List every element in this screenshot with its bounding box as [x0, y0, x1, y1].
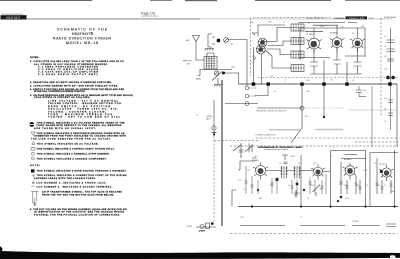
svg-text:L2: L2 — [283, 22, 285, 24]
svg-text:NOTES:: NOTES: — [30, 57, 39, 59]
svg-text:DET: DET — [313, 163, 316, 165]
dashed mid bus — [256, 137, 397, 139]
svg-text:SW1: SW1 — [254, 33, 258, 35]
svg-text:B+: B+ — [274, 91, 276, 93]
svg-text:8: 8 — [384, 185, 385, 187]
wire to oscillator — [225, 73, 239, 84]
capacitor C1 bracket — [208, 34, 212, 47]
svg-text:MODEL MR-18: MODEL MR-18 — [66, 41, 98, 45]
antenna ANT1 — [193, 36, 200, 42]
svg-text:AN IF TRANSFORMER SYMBOL. THE: AN IF TRANSFORMER SYMBOL. THE TOP SLUG I… — [42, 191, 122, 194]
loop antenna transformer L1 — [204, 53, 217, 69]
svg-text:.01: .01 — [384, 46, 386, 48]
svg-text:VOLUME CONTROL - MAXIM: VOLUME CONTROL - MAXIMUM SETTING POS. — [48, 102, 122, 105]
svg-text:455KC: 455KC — [290, 156, 296, 158]
svg-text:2. RESISTORS ARE 1/2 WATT UNL: 2. RESISTORS ARE 1/2 WATT UNLESS OTHERWI… — [30, 81, 112, 84]
svg-text:.05: .05 — [384, 121, 386, 123]
value labels texture — [196, 21, 395, 223]
audio section — [301, 151, 366, 207]
svg-text:HARNESS LEADS WITH THE CHASSIS: HARNESS LEADS WITH THE CHASSIS PARTS. — [34, 177, 96, 180]
tube V6 AF amplifier — [343, 163, 358, 180]
svg-text:BAND SWITCH - BC PO: BAND SWITCH - BC POSITION — [48, 105, 110, 108]
svg-text:FREQUENCY SELECTOR SWITCH: FREQUENCY SELECTOR SWITCH — [256, 110, 287, 112]
B+ bus — [239, 83, 398, 85]
node (black) at V7 grid — [380, 170, 383, 173]
svg-text:.05: .05 — [252, 62, 254, 64]
svg-text:W ANTENNA: W ANTENNA — [384, 16, 397, 19]
svg-text:C4: C4 — [384, 36, 386, 38]
svg-text:(TOP): (TOP) — [369, 18, 374, 20]
svg-text:V-3 6AV6 DET-AVC-AF AMPLIF: V-3 6AV6 DET-AVC-AF AMPLIFIER — [38, 71, 98, 74]
wires switch to coils — [258, 25, 285, 36]
cap C12 — [282, 155, 288, 164]
IF section top dashed border — [230, 145, 398, 147]
svg-text:100: 100 — [384, 56, 387, 58]
oscillator coils T1-T4 — [291, 24, 304, 72]
svg-text:.01: .01 — [288, 185, 290, 187]
svg-text:.02: .02 — [240, 156, 242, 158]
svg-text:LUG NUMBER 2, INDICATES A SOCK: LUG NUMBER 2, INDICATES A SOCKET TERMINA… — [37, 186, 113, 189]
IF transformer T6 — [293, 166, 301, 179]
svg-text:C2: C2 — [231, 44, 233, 46]
svg-text:220: 220 — [270, 185, 273, 187]
right column components — [390, 28, 392, 84]
svg-text:THIS SYMBOL INDICATES A WIRE R: THIS SYMBOL INDICATES A WIRE ROUTED THRO… — [37, 170, 127, 173]
svg-text:T5: T5 — [279, 163, 281, 165]
bottom wires — [240, 225, 380, 227]
header rule — [0, 18, 200, 21]
ground bus — [238, 206, 398, 208]
svg-text:THIS SYMBOL INDICATES AN AC VO: THIS SYMBOL INDICATES AN AC VOLTAGE. — [37, 142, 99, 145]
svg-text:1500: 1500 — [345, 198, 349, 200]
svg-text:AF AMPL: AF AMPL — [344, 158, 352, 161]
IF transformer note symbol — [31, 192, 38, 205]
wire antenna downlead — [195, 42, 197, 59]
wire — [225, 103, 258, 105]
svg-text:THIS SYMBOL INDICATES A DC VOL: THIS SYMBOL INDICATES A DC VOLTAGE READI… — [37, 121, 126, 124]
svg-text:VOL: VOL — [298, 193, 301, 195]
black square marker — [31, 169, 35, 172]
junction squares — [252, 82, 255, 85]
svg-text:V1 6BE6: V1 6BE6 — [306, 34, 313, 36]
svg-text:THE LINE CORD REMOVED FROM THE: THE LINE CORD REMOVED FROM THE AC OUTLET… — [31, 137, 111, 140]
svg-text:RADIO DIRECTION FINDER: RADIO DIRECTION FINDER — [53, 36, 112, 40]
svg-text:JACK: JACK — [206, 118, 211, 121]
note markers column — [31, 132, 35, 160]
svg-text:INTERMEDIATE FREQUENCY AMPL: INTERMEDIATE FREQUENCY AMPL — [258, 146, 304, 149]
tube V5 detector — [311, 164, 325, 180]
connector eyelets — [245, 86, 249, 90]
svg-text:.05: .05 — [352, 80, 354, 82]
svg-text:VOLUME - COUNT: VOLUME - COUNTER CLOCKW. — [48, 111, 106, 113]
trimmer capacitors — [233, 144, 253, 153]
ground bus junction dots — [300, 205, 302, 207]
node A (black junction) — [217, 39, 221, 43]
wire L — [255, 86, 268, 96]
notes text block — [30, 57, 133, 119]
tube V1 6BE6 — [306, 35, 322, 53]
svg-text:V3: V3 — [352, 33, 354, 35]
svg-text:3. CAPACITORS MARKED WITH AN: 3. CAPACITORS MARKED WITH AN * ARE PAPER… — [30, 84, 118, 87]
trimmer capacitor C2 — [224, 38, 229, 43]
svg-text:HEATHKIT®: HEATHKIT® — [72, 32, 94, 36]
padder capacitor C3 — [214, 71, 218, 75]
right side mid components — [302, 84, 397, 147]
gray streaks — [269, 129, 300, 130]
rotary band switch SW1 (two wafers) — [252, 32, 267, 60]
svg-text:T6: T6 — [298, 163, 300, 165]
svg-text:OSCILLATOR - TUNED: OSCILLATOR - TUNED 1000 KC. SIG. — [48, 108, 118, 111]
bottom left small cluster — [196, 226, 216, 228]
top interconnect wires — [298, 23, 365, 61]
title block — [53, 27, 112, 45]
svg-text:ALL OTHERS IN UUF UNLESS OTHER: ALL OTHERS IN UUF UNLESS OTHERWISE MARKE… — [34, 63, 108, 66]
ground (hatched) — [205, 49, 215, 51]
jack J1 — [212, 126, 216, 130]
node B — [222, 72, 225, 75]
tube V3 — [350, 35, 365, 52]
component chains under IF — [246, 166, 326, 194]
svg-text:IF-1: IF-1 — [255, 156, 258, 158]
svg-text:NOTE:: NOTE: — [30, 165, 40, 167]
svg-text:BAND: BAND — [196, 78, 202, 81]
ground — [214, 85, 223, 87]
wire to x=247 drop — [229, 40, 248, 87]
svg-text:IN THE FULL COUNTERCLOCKWISE P: IN THE FULL COUNTERCLOCKWISE POSITION. — [34, 91, 85, 93]
svg-text:.02: .02 — [330, 156, 332, 158]
svg-text:117V AC: 117V AC — [352, 220, 359, 223]
IF transformer T5 — [280, 166, 288, 179]
dashed chassis border left — [214, 136, 258, 222]
tuning shaft line x=214 — [213, 100, 215, 134]
page top edge scan line — [0, 0, 400, 1]
svg-text:.005: .005 — [356, 185, 359, 187]
svg-text:TUNING UNIT: TUNING UNIT — [347, 18, 366, 20]
svg-text:CHASSIS: CHASSIS — [334, 17, 346, 20]
volume control blob — [275, 178, 278, 181]
svg-text:1. CAPACITOR VALUES LESS THAN: 1. CAPACITOR VALUES LESS THAN 1 IN THE F… — [30, 60, 124, 63]
drop from bus x=302 — [301, 86, 303, 128]
audio component chains — [341, 150, 395, 207]
svg-text:LINE VOLTAGE - 117 V: LINE VOLTAGE - 117 V AC NOMINAL — [48, 100, 119, 103]
dashed line above bus — [258, 77, 397, 79]
bottom scan black bar — [0, 246, 400, 259]
svg-text:HOLD WITHIN 20 PERCENT AS FOLL: HOLD WITHIN 20 PERCENT AS FOLLOWS: — [34, 96, 90, 99]
tube V2 — [330, 35, 345, 52]
svg-text:OHMMETER FROM THE POINT INDICA: OHMMETER FROM THE POINT INDICATED TO CHA… — [34, 135, 126, 138]
tube V7 audio output — [379, 165, 393, 181]
svg-text:TUNING CAPACITOR: TUNING CAPACITOR — [306, 17, 325, 20]
svg-text:IN IDENTIFICATION OF THE CIRCU: IN IDENTIFICATION OF THE CIRCUITS. SEE T… — [34, 211, 124, 214]
trimmer arrow — [212, 72, 222, 85]
svg-text:.05: .05 — [243, 189, 245, 191]
svg-text:PICTORIAL FOR THE PHYSICAL LOC: PICTORIAL FOR THE PHYSICAL LOCATION OF C… — [34, 214, 120, 217]
svg-text:V-4 6AQ5 AUDIO OUTPUT AMPL: V-4 6AQ5 AUDIO OUTPUT AMPL — [38, 73, 99, 76]
volume control R12 — [294, 190, 298, 198]
svg-text:THIS SYMBOL INDICATES A CHASSI: THIS SYMBOL INDICATES A CHASSIS COMPONEN… — [37, 157, 107, 160]
svg-text:6AQ5: 6AQ5 — [391, 190, 395, 193]
shielded cable (tall vertical) — [221, 80, 223, 226]
svg-text:THIS SYMBOL INDICATES A CONTRO: THIS SYMBOL INDICATES A CONTROL SHAFT. R… — [37, 148, 115, 151]
svg-text:Page 141: Page 141 — [141, 12, 156, 16]
svg-text:.01: .01 — [341, 27, 343, 29]
svg-text:6. THE DOT COLORS ON THE WIRI: 6. THE DOT COLORS ON THE WIRING HARNESS … — [30, 208, 127, 211]
svg-text:10: 10 — [343, 170, 345, 172]
wire switch to bus — [253, 47, 255, 84]
svg-text:THIS SYMBOL INDICATES A TERMIN: THIS SYMBOL INDICATES A TERMINAL STRIP N… — [37, 153, 110, 156]
svg-text:OUT: OUT — [240, 217, 244, 219]
svg-text:T7: T7 — [300, 217, 302, 219]
selector line — [257, 107, 302, 109]
black circle note marker — [29, 122, 34, 127]
svg-text:SEL: SEL — [305, 116, 308, 118]
volume pot arrow — [313, 185, 321, 197]
svg-text:.01: .01 — [284, 80, 286, 82]
wires IF row — [240, 161, 330, 172]
svg-text:POWER CONNECTOR: POWER CONNECTOR — [256, 134, 276, 136]
svg-text:47: 47 — [308, 23, 310, 25]
svg-text:LUG NUMBER 1, INDICATES A PHON: LUG NUMBER 1, INDICATES A PHONO JACK. — [37, 181, 107, 184]
svg-text:FROM THE TOP AND THE BOTTOM SL: FROM THE TOP AND THE BOTTOM SLUG FROM BE… — [42, 193, 114, 196]
svg-text:47: 47 — [366, 185, 368, 187]
drop x=324 — [323, 86, 325, 116]
svg-text:POINT SHOWN WITH RESPECT TO TH: POINT SHOWN WITH RESPECT TO THE CHASSIS.… — [37, 124, 123, 127]
tube V4 IF amplifier — [253, 163, 268, 180]
svg-text:LOOP: LOOP — [187, 61, 193, 63]
wire under coil — [198, 70, 233, 76]
svg-text:.01: .01 — [307, 198, 309, 200]
svg-text:TUNING - SET T: TUNING - SET TO LOW END OF DIAL — [48, 116, 121, 119]
Heathkit logo label — [1, 14, 27, 20]
svg-text:FIL: FIL — [384, 109, 386, 111]
svg-text:OUTPUT: OUTPUT — [379, 164, 388, 166]
dashed oscillator box — [251, 18, 382, 117]
svg-text:THIS SYMBOL INDICATES A CONNEC: THIS SYMBOL INDICATES A CONNECTION POINT… — [37, 174, 127, 177]
svg-text:.02: .02 — [374, 163, 376, 165]
bottom dashed border — [230, 233, 398, 235]
svg-text:SPKR: SPKR — [187, 226, 193, 228]
small chain above IF — [239, 143, 244, 158]
svg-text:ARE TAKEN WITH NO SIGNAL INPUT: ARE TAKEN WITH NO SIGNAL INPUT. — [34, 127, 96, 130]
twin junction blobs — [386, 76, 390, 80]
wire tube drops to bus — [310, 48, 362, 85]
svg-text:THIS SYMBOL INDICATES A RESIST: THIS SYMBOL INDICATES A RESISTANCE READI… — [37, 132, 125, 135]
